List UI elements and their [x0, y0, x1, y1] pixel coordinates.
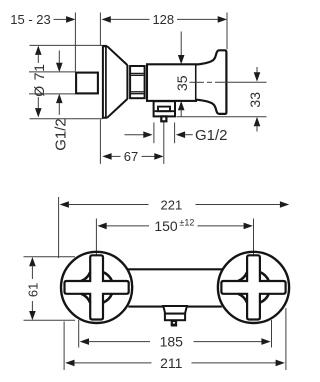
dim 221 left arrow: [60, 201, 69, 208]
dim G1/2 outlet right arrow: [176, 131, 185, 138]
centerline: [190, 81, 205, 83]
right cross handle: [221, 255, 285, 319]
dim 67 right arrow: [154, 153, 163, 160]
dim 61 bottom arrow: [29, 311, 36, 320]
extension line right valve center: [253, 219, 255, 256]
extension line outlet thread right: [174, 123, 176, 144]
svg-text:128: 128: [152, 12, 174, 27]
svg-text:Ø 71: Ø 71: [31, 63, 47, 97]
valve body: [147, 64, 196, 101]
extension line union bottom: [29, 93, 75, 95]
escutcheon base plate: [102, 46, 107, 117]
dim 61 top arrow: [29, 257, 36, 266]
dim G1/2 union upper arrow: [58, 51, 60, 64]
dim 185 right arrow: [261, 338, 270, 345]
extension line escutcheon face upper: [99, 13, 101, 46]
extension line 185 right: [271, 320, 273, 348]
svg-text:61: 61: [26, 283, 41, 297]
nut facet lines: [131, 73, 144, 93]
extension line wall/union left: [74, 13, 76, 72]
svg-text:±12: ±12: [179, 217, 194, 227]
extension line left valve center: [95, 219, 97, 256]
dim 35 lower arrow: [178, 101, 185, 110]
dim 33 lower arrow: [254, 117, 261, 126]
extension line union top: [29, 71, 75, 73]
right escutcheon circle: [218, 252, 289, 323]
svg-text:35: 35: [174, 75, 190, 91]
dim dia71 top arrow: [35, 46, 42, 55]
extension line escutcheon top: [30, 44, 107, 46]
extension line handle top: [24, 256, 76, 258]
outlet flange (front view): [163, 306, 187, 314]
svg-text:G1/2: G1/2: [52, 118, 69, 151]
dim G1/2 outlet left arrow: [125, 134, 145, 136]
svg-text:33: 33: [247, 92, 263, 108]
svg-text:185: 185: [160, 334, 184, 350]
dim 128 right arrow: [218, 16, 227, 23]
extension line escutcheon bottom: [30, 118, 103, 120]
body bar top edge: [128, 268, 223, 270]
handle (side view): [197, 50, 227, 114]
left cross handle: [65, 255, 129, 319]
body bar bottom edge: [128, 306, 222, 308]
left escutcheon circle: [61, 252, 132, 323]
svg-text:G1/2: G1/2: [195, 127, 228, 144]
dim G1/2 union lower arrow: [56, 94, 63, 103]
dim 185 left arrow: [80, 338, 89, 345]
dim 150 left arrow: [97, 223, 106, 230]
extension line outlet bottom: [176, 116, 266, 118]
dim 67 left arrow: [102, 153, 111, 160]
dim dia71 bottom arrow: [35, 108, 42, 117]
union nut: [130, 66, 145, 98]
svg-text:211: 211: [160, 355, 183, 371]
wall union square: [76, 73, 98, 94]
extension line outlet centerline: [163, 122, 165, 164]
extension line escutcheon face lower: [99, 120, 101, 164]
escutcheon cone: [107, 46, 127, 117]
dim 33 upper arrow: [256, 67, 258, 73]
dim 221 right arrow: [280, 201, 289, 208]
extension line handle tip left: [63, 322, 65, 371]
extension line left escutcheon edge: [58, 197, 60, 258]
dim 211 left arrow: [65, 360, 74, 367]
extension line handle right: [226, 13, 228, 50]
extension line handle bottom: [24, 319, 76, 321]
extension line 185 left: [78, 320, 80, 348]
dim 211 right arrow: [276, 360, 285, 367]
svg-text:67: 67: [124, 149, 138, 164]
dim 128 left arrow: [102, 16, 111, 23]
svg-text:221: 221: [161, 197, 183, 212]
dim 35 upper arrow: [180, 32, 182, 56]
right handle hub arcs: [260, 272, 269, 281]
dim 150 right arrow: [244, 223, 253, 230]
outlet nub (side view): [161, 116, 166, 121]
outlet nipple (front view): [172, 321, 176, 325]
extension line handle tip right: [285, 308, 287, 370]
left handle hub arcs: [103, 272, 112, 281]
dim 15-23 line+arrow: [54, 18, 68, 20]
outlet fitting (side view): [154, 101, 175, 116]
svg-text:150: 150: [154, 218, 178, 234]
svg-text:15 - 23: 15 - 23: [10, 12, 50, 27]
extension line outlet thread left: [153, 123, 155, 144]
